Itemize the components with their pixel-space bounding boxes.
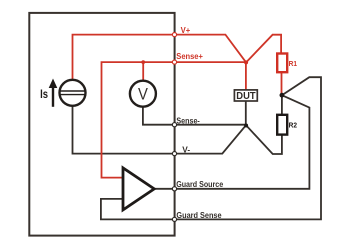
Is arrow [49,79,58,107]
svg-text:Guard Sense: Guard Sense [176,211,222,220]
wire: op-amp feedback / Guard Sense line up to guard node [101,77,321,219]
outer instrument box [29,13,174,236]
node: red junction dot on Sense+ line at voltmeter tap [141,60,145,64]
wire: op-amp output / Guard Source line up to guard node [154,95,309,189]
wire: current source bottom to V- line to sense junction [73,107,247,154]
voltmeter V [130,81,156,107]
resistor R1 [277,54,287,73]
terminal Guard Sense [172,217,176,221]
node: sense junction dot (Sense-/V-/DUT/R2) [244,124,248,128]
wire: R1 bottom to guard node (red) [281,72,283,95]
current source Is [60,80,86,106]
node: guard node dot (R1/R2/guard wires) [280,93,285,98]
wire: Sense+ red path from op-amp + input up and across to junction [102,62,247,178]
wire: junction to R1 top (red) [246,35,281,63]
svg-text:DUT: DUT [236,91,255,102]
wire: DUT bottom to sense junction [245,101,247,126]
svg-text:Is: Is [40,87,48,101]
wire: voltmeter bottom to Sense- line to sense junction [143,107,246,125]
terminal Guard Source [172,187,176,191]
svg-text:Sense-: Sense- [176,116,200,125]
wire: V+ red path from current source top to summing junction [73,35,247,81]
label Guard Source [176,180,223,189]
label V+ [181,26,191,35]
svg-text:V-: V- [182,145,190,154]
label V- [182,145,190,154]
wire: sense junction to R2 bottom [246,125,282,154]
label R1 [289,59,298,68]
wire: voltmeter top stub (red) [142,62,144,81]
label Sense+ [176,52,203,61]
terminal Sense- [172,123,176,127]
node: red summing junction of V+/Sense+/R1/DUT [244,60,248,64]
label Sense- [176,116,200,125]
label Guard Sense [176,211,222,220]
svg-text:Sense+: Sense+ [176,52,203,61]
svg-text:R1: R1 [289,59,298,68]
resistor R2 [277,115,287,135]
label Is [40,87,48,101]
wire: junction to DUT top (red) [245,62,247,90]
terminal V+ [172,33,176,37]
terminal Sense+ [172,60,176,64]
svg-text:R2: R2 [289,120,297,129]
wire: R2 top to guard node [281,95,283,115]
svg-text:V: V [138,84,148,103]
op-amp guard buffer [123,168,154,210]
svg-text:Guard Source: Guard Source [176,180,223,189]
DUT box [234,90,257,102]
terminal V- [172,152,176,156]
label R2 [289,120,297,129]
svg-text:V+: V+ [181,26,191,35]
